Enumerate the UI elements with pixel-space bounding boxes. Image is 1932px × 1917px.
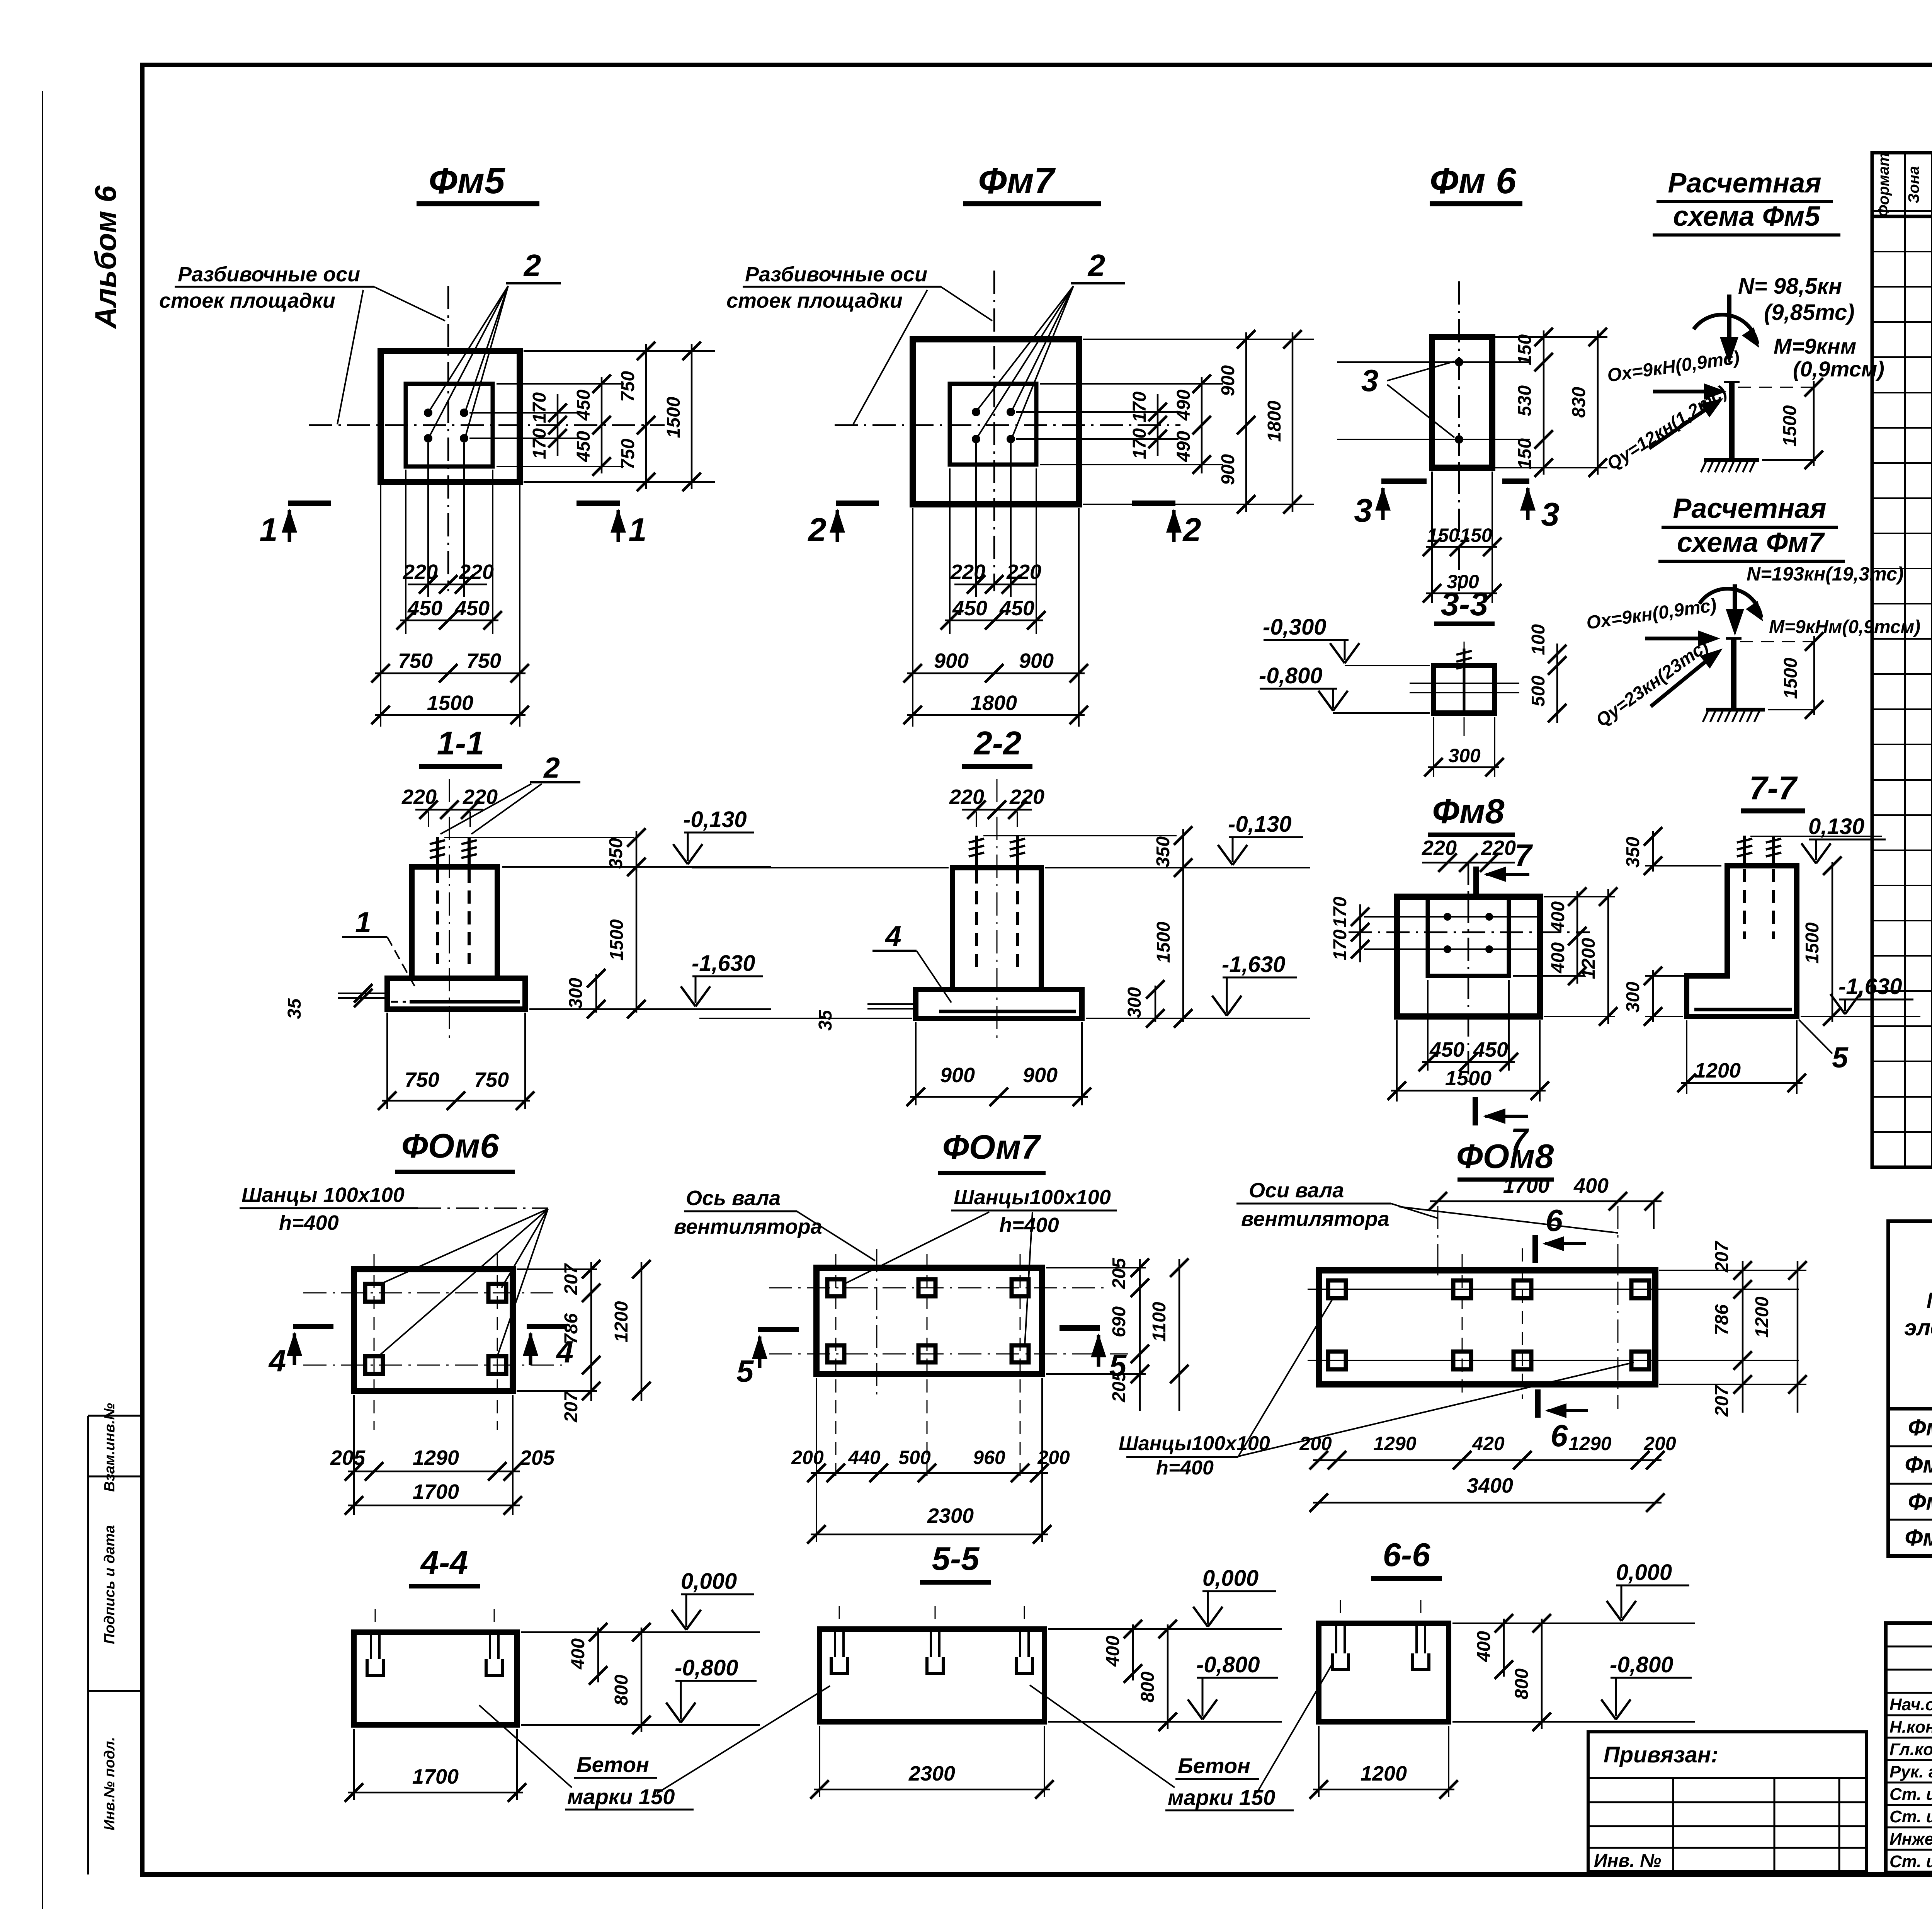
2-2 dim 350 bbox=[1182, 829, 1184, 870]
svg-text:Разбивочные оси: Разбивочные оси bbox=[178, 263, 360, 286]
svg-text:6-6: 6-6 bbox=[1383, 1537, 1431, 1573]
Fm6 dim 150 150 bbox=[1426, 546, 1497, 548]
svg-text:Бетон: Бетон bbox=[577, 1752, 649, 1777]
svg-text:350: 350 bbox=[1623, 837, 1643, 868]
svg-text:490: 490 bbox=[1173, 431, 1194, 462]
svg-text:0,000: 0,000 bbox=[1202, 1566, 1259, 1591]
svg-text:800: 800 bbox=[1512, 1668, 1532, 1699]
svg-text:1700: 1700 bbox=[412, 1765, 459, 1788]
svg-text:2: 2 bbox=[807, 512, 826, 548]
section cut 6-6 upper mark bbox=[1532, 1235, 1538, 1263]
svg-text:220: 220 bbox=[1481, 836, 1516, 860]
svg-text:Подпись и дата: Подпись и дата bbox=[102, 1525, 118, 1644]
svg-text:5: 5 bbox=[736, 1354, 754, 1388]
2-2 dim 1500 bbox=[1182, 868, 1184, 1022]
svg-text:1500: 1500 bbox=[663, 397, 684, 438]
svg-text:170: 170 bbox=[1330, 930, 1350, 960]
Fm7 dim 170 170 vertical bbox=[1157, 394, 1159, 456]
svg-text:1200: 1200 bbox=[611, 1301, 632, 1342]
svg-text:450: 450 bbox=[1473, 1038, 1508, 1061]
svg-text:Фм 8: Фм 8 bbox=[1905, 1525, 1932, 1551]
svg-text:220: 220 bbox=[459, 560, 494, 584]
Fm7 right extension lines bbox=[1083, 339, 1314, 340]
svg-text:-0,800: -0,800 bbox=[1196, 1652, 1260, 1677]
1-1 bolt top extension bbox=[444, 837, 634, 838]
svg-text:Гл.констр.: Гл.констр. bbox=[1889, 1740, 1932, 1759]
svg-text:стоек площадки: стоек площадки bbox=[726, 289, 903, 312]
FOm6 shantsy squares bbox=[365, 1284, 383, 1302]
FOm6 dim 1200 right bbox=[641, 1262, 643, 1401]
svg-text:6: 6 bbox=[1551, 1418, 1568, 1453]
section 3-3 break lines bbox=[1410, 683, 1519, 684]
svg-text:Фм 6: Фм 6 bbox=[1905, 1452, 1932, 1478]
section 5-5 dims 400 800 bbox=[1132, 1624, 1134, 1680]
7-7 bolt top extension bbox=[1750, 836, 1882, 837]
2-2 pedestal bbox=[952, 868, 1041, 989]
svg-text:300: 300 bbox=[1124, 987, 1145, 1018]
svg-text:900: 900 bbox=[1019, 649, 1054, 672]
1-1 dim 220 220 bbox=[428, 812, 429, 827]
svg-text:220: 220 bbox=[401, 785, 437, 809]
svg-text:Шанцы 100x100: Шанцы 100x100 bbox=[241, 1183, 405, 1207]
ground Fm5 scheme bbox=[1704, 458, 1759, 462]
7-7 dim 350 300 left bbox=[1645, 865, 1721, 867]
svg-text:Фм8: Фм8 bbox=[1432, 792, 1505, 831]
svg-text:1500: 1500 bbox=[607, 919, 627, 960]
plan Fm8 axes bbox=[1349, 931, 1590, 933]
svg-text:400: 400 bbox=[1573, 1174, 1609, 1197]
Fm6 bottom extension lines bbox=[1431, 472, 1433, 603]
svg-text:Нач.отд.: Нач.отд. bbox=[1889, 1695, 1932, 1714]
svg-text:Ось вала: Ось вала bbox=[686, 1187, 781, 1210]
svg-text:1290: 1290 bbox=[1373, 1433, 1416, 1454]
svg-text:690: 690 bbox=[1109, 1306, 1129, 1337]
svg-text:150: 150 bbox=[1515, 438, 1535, 469]
svg-text:3: 3 bbox=[1354, 492, 1372, 529]
svg-text:900: 900 bbox=[1023, 1064, 1058, 1087]
svg-text:Фм 6: Фм 6 bbox=[1430, 160, 1517, 201]
7-7 mesh line bbox=[1694, 1008, 1792, 1011]
svg-text:-1,630: -1,630 bbox=[692, 951, 755, 976]
svg-text:1100: 1100 bbox=[1149, 1302, 1170, 1342]
svg-text:1500: 1500 bbox=[1781, 657, 1801, 699]
svg-text:786: 786 bbox=[1712, 1304, 1732, 1335]
svg-text:450: 450 bbox=[407, 597, 442, 620]
7-7 outline bbox=[1687, 866, 1797, 1016]
svg-text:ФОм6: ФОм6 bbox=[401, 1127, 499, 1165]
svg-text:400: 400 bbox=[1548, 901, 1568, 933]
svg-text:100: 100 bbox=[1528, 624, 1549, 655]
svg-text:марки 150: марки 150 bbox=[567, 1784, 675, 1809]
2-2 slab bottom extension left bbox=[699, 1018, 912, 1019]
svg-text:300: 300 bbox=[1623, 982, 1643, 1013]
privyazan box bbox=[1588, 1732, 1866, 1872]
svg-text:450: 450 bbox=[573, 431, 594, 462]
svg-text:-1,630: -1,630 bbox=[1222, 952, 1285, 977]
ground Fm7 scheme bbox=[1706, 708, 1765, 712]
svg-text:1500: 1500 bbox=[1802, 922, 1823, 964]
plan Fm5 axes bbox=[447, 286, 449, 591]
svg-text:Марка: Марка bbox=[1926, 1288, 1932, 1313]
Fm8 dim 220 220 top bbox=[1422, 862, 1515, 864]
Fm5 dim 1500 vertical bbox=[691, 344, 693, 489]
svg-text:Фм7: Фм7 bbox=[978, 160, 1056, 201]
svg-text:4-4: 4-4 bbox=[420, 1544, 468, 1581]
2-2 bolt top extension bbox=[983, 835, 1177, 836]
svg-text:-0,130: -0,130 bbox=[683, 807, 747, 832]
7-7 bottom dim 1200 bbox=[1686, 1020, 1687, 1094]
column Fm5 scheme bbox=[1729, 382, 1735, 459]
svg-text:N=193кн(19,3тс): N=193кн(19,3тс) bbox=[1747, 563, 1904, 585]
svg-text:2: 2 bbox=[1182, 512, 1201, 548]
FOm7 bottom dims bbox=[816, 1378, 817, 1542]
2-2 pedestal top extension left bbox=[692, 867, 949, 868]
section 4-4 dims 400 800 bbox=[597, 1628, 599, 1682]
Fm8 dim 170 170 left bbox=[1359, 904, 1361, 962]
2-2 slab bbox=[916, 989, 1082, 1018]
svg-text:400: 400 bbox=[1103, 1636, 1123, 1667]
1-1 center axis bbox=[449, 779, 450, 1044]
plan FOm8 rect bbox=[1319, 1270, 1655, 1384]
steel table grid bbox=[1888, 1221, 1932, 1556]
svg-text:1200: 1200 bbox=[1361, 1762, 1407, 1785]
Fm5 dim 220 220 bbox=[408, 584, 487, 586]
Fm5 dim 750 750 vertical bbox=[645, 344, 647, 489]
svg-text:Инв. №: Инв. № bbox=[1594, 1851, 1661, 1871]
svg-text:300: 300 bbox=[1448, 745, 1481, 766]
svg-text:1200: 1200 bbox=[1752, 1296, 1772, 1338]
svg-text:1500: 1500 bbox=[1153, 921, 1174, 963]
svg-text:750: 750 bbox=[618, 439, 638, 470]
section 4-4 bottom dim 1700 bbox=[353, 1729, 355, 1800]
svg-text:вентилятора: вентилятора bbox=[1241, 1207, 1389, 1231]
svg-text:205: 205 bbox=[519, 1446, 555, 1469]
1-1 anchor bolts bbox=[436, 837, 439, 867]
Fm8 bottom dims 450 450 1500 bbox=[1396, 1020, 1398, 1102]
svg-text:450: 450 bbox=[454, 597, 490, 620]
plan FOm7 rect bbox=[816, 1268, 1042, 1374]
svg-text:1700: 1700 bbox=[413, 1480, 459, 1503]
svg-text:Формат: Формат bbox=[1875, 153, 1892, 217]
section cut 7-7 lower mark bbox=[1473, 1097, 1478, 1125]
FOm8 dims right 207 786 207 bbox=[1659, 1270, 1806, 1271]
svg-text:N= 98,5кн: N= 98,5кн bbox=[1738, 274, 1842, 299]
FOm8 top dim 1700 400 bbox=[1430, 1200, 1662, 1202]
svg-text:ФОм8: ФОм8 bbox=[1456, 1137, 1554, 1175]
svg-text:220: 220 bbox=[1009, 785, 1044, 809]
FOm8 bottom dims bbox=[1313, 1459, 1662, 1461]
svg-text:схема Фм7: схема Фм7 bbox=[1677, 527, 1825, 558]
svg-text:Фм7: Фм7 bbox=[1908, 1489, 1932, 1515]
FOm7 shantsy squares bbox=[827, 1279, 844, 1296]
plan Fm7 axes bbox=[993, 271, 995, 591]
svg-text:6: 6 bbox=[1546, 1203, 1563, 1238]
svg-text:500: 500 bbox=[1528, 676, 1549, 707]
svg-text:220: 220 bbox=[463, 785, 498, 809]
plan Fm6 bolts bbox=[1455, 358, 1463, 366]
FOm6 bottom dims 205 1290 205 1700 bbox=[353, 1395, 355, 1515]
svg-text:800: 800 bbox=[1138, 1672, 1158, 1702]
svg-text:1: 1 bbox=[259, 512, 277, 548]
svg-text:0,000: 0,000 bbox=[1616, 1560, 1672, 1585]
svg-text:3: 3 bbox=[1361, 363, 1379, 398]
svg-text:1290: 1290 bbox=[413, 1446, 459, 1469]
svg-text:207: 207 bbox=[561, 1391, 582, 1423]
plan Fm6 rectangle bbox=[1432, 337, 1492, 468]
svg-text:170: 170 bbox=[1129, 392, 1150, 422]
paper fold line left bbox=[42, 91, 43, 1909]
svg-text:300: 300 bbox=[566, 978, 586, 1009]
section cut 2-2 marks bbox=[836, 501, 879, 506]
svg-text:200: 200 bbox=[1037, 1447, 1070, 1468]
svg-text:1500: 1500 bbox=[427, 691, 473, 715]
svg-text:220: 220 bbox=[1422, 836, 1457, 860]
svg-text:900: 900 bbox=[934, 649, 969, 672]
section 5-5 shantsy notches bbox=[834, 1629, 836, 1657]
svg-text:750: 750 bbox=[466, 649, 501, 672]
svg-text:205: 205 bbox=[330, 1446, 366, 1469]
svg-text:стоек площадки: стоек площадки bbox=[159, 289, 335, 312]
2-2 bottom dim 900 900 bbox=[915, 1022, 917, 1105]
svg-text:750: 750 bbox=[474, 1068, 509, 1091]
section 4-4 block bbox=[354, 1632, 517, 1725]
svg-text:M=9кнм: M=9кнм bbox=[1774, 334, 1856, 358]
svg-text:450: 450 bbox=[1429, 1038, 1464, 1061]
FOm8 shantsy squares bbox=[1328, 1280, 1346, 1298]
moment arc Fm5 bbox=[1694, 315, 1757, 344]
svg-text:220: 220 bbox=[1006, 560, 1041, 584]
svg-text:207: 207 bbox=[1712, 1385, 1732, 1417]
svg-text:M=9кНм(0,9тсм): M=9кНм(0,9тсм) bbox=[1769, 617, 1920, 637]
svg-text:490: 490 bbox=[1173, 390, 1194, 421]
svg-text:750: 750 bbox=[405, 1068, 439, 1091]
svg-text:h=400: h=400 bbox=[999, 1214, 1059, 1237]
svg-text:400: 400 bbox=[1474, 1631, 1494, 1662]
svg-text:схема Фм5: схема Фм5 bbox=[1673, 201, 1820, 232]
svg-text:Расчетная: Расчетная bbox=[1673, 493, 1826, 524]
svg-text:Оси вала: Оси вала bbox=[1249, 1179, 1344, 1202]
svg-text:1800: 1800 bbox=[1264, 400, 1285, 442]
FOm7 axes bbox=[769, 1287, 1110, 1289]
Fm6 dim 830 vertical bbox=[1597, 330, 1599, 475]
svg-text:ФОм7: ФОм7 bbox=[942, 1128, 1041, 1166]
svg-text:1200: 1200 bbox=[1694, 1059, 1741, 1082]
column Fm7 scheme bbox=[1731, 638, 1736, 708]
svg-text:2: 2 bbox=[1087, 248, 1105, 283]
1-1 pedestal bbox=[412, 867, 497, 978]
svg-text:4: 4 bbox=[884, 920, 901, 952]
2-2 dim 300 bbox=[1155, 986, 1156, 1022]
svg-text:205: 205 bbox=[1109, 1371, 1129, 1403]
svg-text:Взам.инв.№: Взам.инв.№ bbox=[102, 1403, 118, 1492]
svg-text:220: 220 bbox=[403, 560, 438, 584]
svg-text:530: 530 bbox=[1515, 385, 1535, 416]
svg-text:900: 900 bbox=[1218, 365, 1238, 396]
svg-text:-0,130: -0,130 bbox=[1228, 812, 1291, 837]
section 4-4 shantsy notches bbox=[370, 1632, 372, 1659]
svg-text:900: 900 bbox=[1218, 454, 1238, 485]
svg-text:h=400: h=400 bbox=[279, 1211, 339, 1234]
Fm8 dim 400 400 right bbox=[1544, 896, 1615, 897]
Fm7 dim 900 900 bbox=[907, 672, 1085, 674]
1-1 mesh line bbox=[410, 1000, 520, 1004]
svg-text:2: 2 bbox=[523, 248, 541, 283]
svg-text:0,130: 0,130 bbox=[1808, 814, 1864, 839]
svg-text:3: 3 bbox=[1541, 496, 1559, 533]
svg-text:Шанцы100x100: Шанцы100x100 bbox=[954, 1186, 1111, 1209]
FOm6 axes bbox=[303, 1292, 553, 1294]
Fm6 right extension lines bbox=[1495, 336, 1607, 338]
section 6-6 dims 400 800 bbox=[1503, 1619, 1505, 1677]
plan Fm6 axes bbox=[1458, 281, 1460, 591]
svg-text:200: 200 bbox=[791, 1447, 824, 1468]
svg-text:200: 200 bbox=[1643, 1433, 1676, 1454]
section 6-6 block bbox=[1319, 1623, 1449, 1722]
svg-text:450: 450 bbox=[573, 390, 594, 421]
Fm7 dim 450 450 bbox=[945, 620, 1043, 621]
svg-text:Бетон: Бетон bbox=[1178, 1754, 1250, 1778]
svg-text:400: 400 bbox=[568, 1638, 588, 1670]
section 3-3 dim 300 bbox=[1433, 717, 1434, 777]
svg-text:1: 1 bbox=[355, 906, 371, 938]
svg-text:400: 400 bbox=[1548, 942, 1568, 974]
svg-text:h=400: h=400 bbox=[1156, 1457, 1214, 1479]
svg-text:440: 440 bbox=[848, 1447, 881, 1468]
Fm6 dim 150 530 150 vertical bbox=[1543, 330, 1545, 475]
svg-text:220: 220 bbox=[950, 560, 985, 584]
svg-text:1500: 1500 bbox=[1445, 1067, 1492, 1090]
section 5-5 bottom dim 2300 bbox=[819, 1726, 820, 1797]
svg-text:150: 150 bbox=[1460, 524, 1492, 546]
7-7 anchor bolts bbox=[1743, 836, 1746, 866]
Fm5 bottom extension lines bbox=[380, 485, 381, 727]
svg-text:150: 150 bbox=[1427, 524, 1459, 546]
svg-text:170: 170 bbox=[1330, 897, 1350, 928]
plan Fm5 inner square bbox=[406, 384, 493, 466]
svg-text:170: 170 bbox=[529, 428, 550, 459]
plan Fm7 inner square bbox=[950, 384, 1036, 465]
2-2 dim 35 bbox=[867, 1003, 916, 1005]
Fm7 dim 1800 vertical bbox=[1292, 332, 1294, 512]
moment arc Fm7 bbox=[1699, 589, 1761, 618]
svg-text:2: 2 bbox=[543, 751, 560, 784]
section 3-3 pier bbox=[1434, 666, 1495, 713]
svg-text:200: 200 bbox=[1299, 1433, 1332, 1454]
Fm7 dim 1800 bbox=[907, 714, 1085, 716]
section 6-6 bottom dim 1200 bbox=[1318, 1726, 1320, 1797]
section 3-3 bolt bbox=[1463, 649, 1466, 713]
force Qy Fm7 bbox=[1651, 654, 1715, 707]
Fm7 dim 220 220 bbox=[954, 584, 1036, 586]
1-1 dim 1500 bbox=[636, 867, 638, 1013]
plan Fm5 outer square bbox=[381, 351, 520, 482]
Fm7 bottom extension lines bbox=[912, 508, 913, 727]
svg-text:5: 5 bbox=[1832, 1041, 1849, 1074]
section 3-3 dim 100 500 bbox=[1556, 644, 1558, 723]
svg-text:-1,630: -1,630 bbox=[1838, 974, 1902, 999]
svg-text:35: 35 bbox=[284, 998, 305, 1019]
section cut 1-1 marks bbox=[288, 501, 331, 506]
1-1 dim 300 bbox=[595, 974, 597, 1013]
svg-text:Расчетная: Расчетная bbox=[1668, 168, 1821, 199]
FOm8 dim 1200 right bbox=[1797, 1261, 1799, 1413]
Fm6 dim 300 bbox=[1426, 592, 1497, 594]
svg-text:Ст. инж.: Ст. инж. bbox=[1889, 1852, 1932, 1871]
svg-text:-0,300: -0,300 bbox=[1263, 615, 1326, 640]
FOm8 axes bbox=[1308, 1289, 1799, 1290]
plan Fm8 bolts bbox=[1444, 913, 1451, 921]
svg-text:170: 170 bbox=[1129, 428, 1150, 459]
left margin stamp strip bbox=[87, 1416, 89, 1874]
svg-text:786: 786 bbox=[561, 1313, 582, 1344]
force Qy Fm5 bbox=[1649, 403, 1716, 448]
plan Fm7 anchor bolts bbox=[972, 408, 980, 416]
svg-text:900: 900 bbox=[940, 1064, 975, 1087]
scheme Fm5 dim 1500 bbox=[1738, 387, 1816, 388]
svg-text:1700: 1700 bbox=[1503, 1174, 1549, 1197]
svg-text:207: 207 bbox=[1712, 1241, 1732, 1273]
svg-text:Инв.№ подл.: Инв.№ подл. bbox=[102, 1737, 118, 1830]
svg-text:элемента: элемента bbox=[1904, 1315, 1932, 1340]
Fm5 dim 170 170 vertical bbox=[557, 394, 559, 456]
Fm7 dim 490 490 vertical bbox=[1201, 377, 1203, 473]
FOm6 dims right 207 786 207 bbox=[517, 1268, 597, 1270]
plan Fm5 anchor bolts bbox=[424, 409, 432, 417]
2-2 dim 220 220 bbox=[976, 812, 977, 827]
svg-text:1500: 1500 bbox=[1780, 405, 1800, 446]
svg-text:500: 500 bbox=[898, 1447, 931, 1468]
section cut 7-7 upper mark bbox=[1473, 867, 1479, 896]
svg-text:5-5: 5-5 bbox=[932, 1541, 980, 1577]
svg-text:Фм5: Фм5 bbox=[1908, 1415, 1932, 1440]
svg-text:1200: 1200 bbox=[1578, 938, 1599, 979]
svg-text:Привязан:: Привязан: bbox=[1604, 1742, 1718, 1767]
scheme Fm7 dim 1500 bbox=[1740, 641, 1816, 642]
svg-text:3-3: 3-3 bbox=[1441, 586, 1488, 623]
svg-text:1290: 1290 bbox=[1568, 1433, 1611, 1454]
FOm7 dim 1100 right bbox=[1179, 1259, 1180, 1411]
svg-text:450: 450 bbox=[952, 597, 987, 620]
svg-text:1: 1 bbox=[628, 512, 646, 548]
2-2 anchor bolts bbox=[975, 836, 978, 868]
plan Fm8 outer rect bbox=[1397, 897, 1540, 1016]
svg-text:Ст. инж.: Ст. инж. bbox=[1889, 1807, 1932, 1826]
plan Fm8 inner rect bbox=[1428, 897, 1509, 976]
svg-text:7: 7 bbox=[1515, 838, 1533, 872]
svg-text:800: 800 bbox=[611, 1675, 632, 1706]
plan FOm6 rect bbox=[354, 1269, 513, 1391]
svg-text:3400: 3400 bbox=[1467, 1474, 1513, 1497]
svg-text:1-1: 1-1 bbox=[437, 725, 485, 762]
svg-text:Альбом 6: Альбом 6 bbox=[88, 185, 122, 329]
Fm5 dim 450 450 vertical bbox=[601, 377, 603, 473]
Fm5 dim 450 450 bbox=[400, 620, 498, 621]
svg-text:170: 170 bbox=[529, 392, 550, 423]
Fm5 right extension lines bbox=[524, 350, 715, 352]
1-1 dim 35 bbox=[338, 993, 387, 994]
svg-text:0,000: 0,000 bbox=[681, 1569, 737, 1594]
Fm7 dim 900 900 vertical bbox=[1245, 332, 1247, 512]
1-1 bottom dim 750 750 bbox=[386, 1013, 388, 1109]
1-1 dim 350 bbox=[636, 831, 638, 872]
1-1 slab bbox=[387, 978, 525, 1009]
svg-text:4: 4 bbox=[268, 1343, 286, 1378]
section 5-5 block bbox=[820, 1629, 1044, 1722]
svg-text:Ст. инж.: Ст. инж. bbox=[1889, 1785, 1932, 1804]
svg-text:150: 150 bbox=[1515, 334, 1535, 365]
svg-text:2300: 2300 bbox=[927, 1504, 974, 1527]
svg-text:205: 205 bbox=[1109, 1258, 1129, 1289]
